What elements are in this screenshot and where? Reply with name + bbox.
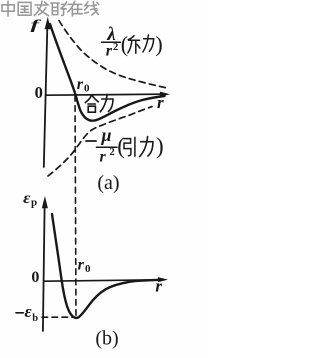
r-axis horizontal line (b) (44, 280, 158, 281)
svg-text:): ) (155, 32, 162, 57)
watermark char 发 (34, 1, 49, 16)
svg-text:2: 2 (110, 147, 115, 158)
svg-text:2: 2 (113, 42, 118, 53)
solid potential curve (b) (52, 214, 162, 318)
svg-text:0: 0 (84, 83, 90, 95)
svg-text:f: f (31, 18, 42, 33)
f-axis vertical line (44, 28, 48, 167)
svg-text:r: r (106, 43, 113, 60)
dashed vertical line at r0 (75, 96, 76, 317)
eps-axis arrowhead (42, 196, 48, 208)
watermark char 国 (18, 2, 31, 15)
svg-text:r: r (155, 276, 162, 295)
r-axis horizontal line (a) (46, 94, 161, 95)
char 力 (引力) (140, 137, 153, 157)
dashed horizontal line at -eps_b (42, 316, 74, 318)
watermark char 中 (2, 1, 14, 16)
watermark char 线 (85, 2, 99, 15)
fraction bar (mu/r^2) (97, 146, 118, 148)
r-axis arrowhead (a) (160, 92, 170, 97)
dashed repulsion curve lambda/r^2 (59, 21, 168, 89)
eps-axis vertical line (43, 207, 45, 331)
watermark char 酵 (51, 2, 67, 16)
svg-text:(a): (a) (97, 172, 119, 194)
svg-text:0: 0 (85, 263, 91, 275)
char 引 (124, 137, 135, 156)
svg-text:): ) (156, 134, 164, 159)
svg-text:r: r (78, 256, 85, 273)
char 力 (合力) (100, 94, 113, 111)
r-axis arrowhead (b) (158, 277, 168, 282)
char 力 (斥力) (143, 35, 154, 52)
svg-text:ε: ε (25, 302, 32, 321)
svg-text:r: r (157, 93, 164, 112)
watermark char 在 (68, 1, 82, 16)
svg-text:r: r (100, 148, 107, 165)
svg-text:(b): (b) (95, 328, 118, 350)
svg-text:r: r (77, 76, 84, 93)
dashed attraction curve -mu/r^2 (48, 107, 152, 176)
svg-text:ε: ε (23, 190, 31, 207)
label minus (mu fraction) (86, 140, 96, 142)
f-axis arrowhead (45, 17, 51, 29)
fraction bar (lambda/r^2) (102, 41, 121, 43)
svg-text:0: 0 (31, 269, 39, 286)
label -eps_b minus (16, 312, 23, 314)
char 斥 (128, 36, 140, 53)
svg-text:0: 0 (35, 83, 43, 102)
char 合 (85, 95, 98, 112)
svg-text:(: ( (121, 32, 128, 57)
watermark 中国发酵在线 (2, 1, 99, 16)
svg-text:μ: μ (101, 125, 112, 145)
solid net-force curve 合力 (50, 24, 165, 121)
svg-text:p: p (31, 197, 37, 209)
svg-text:b: b (32, 313, 38, 324)
